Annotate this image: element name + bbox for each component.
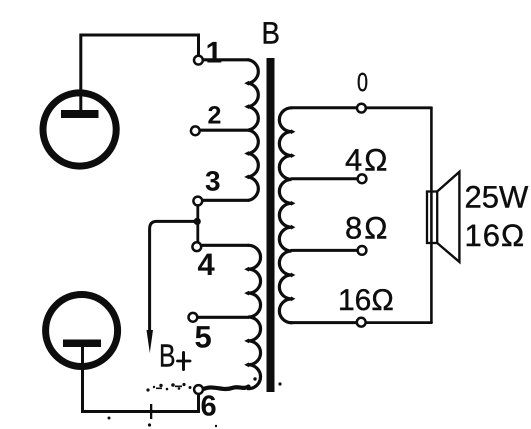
svg-text:5: 5 (195, 320, 212, 355)
svg-text:8Ω: 8Ω (345, 211, 389, 246)
svg-text:6: 6 (201, 391, 217, 423)
svg-text:16Ω: 16Ω (465, 218, 526, 253)
svg-text:1: 1 (206, 37, 223, 70)
svg-text:25W: 25W (465, 180, 529, 215)
svg-text:B: B (262, 16, 281, 51)
svg-text:3: 3 (205, 166, 221, 197)
svg-text:B: B (159, 338, 176, 374)
svg-text:16Ω: 16Ω (338, 284, 394, 317)
svg-text:0: 0 (357, 67, 368, 97)
svg-text:4Ω: 4Ω (345, 143, 389, 178)
svg-text:4: 4 (198, 247, 216, 282)
svg-text:2: 2 (208, 102, 222, 130)
